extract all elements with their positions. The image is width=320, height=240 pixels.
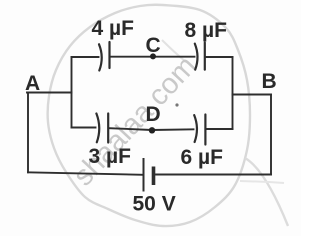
svg-text:4 µF: 4 µF (92, 17, 135, 40)
svg-text:3 µF: 3 µF (89, 145, 132, 168)
svg-text:6 µF: 6 µF (181, 146, 224, 169)
svg-text:8 µF: 8 µF (185, 19, 228, 42)
svg-text:50 V: 50 V (133, 193, 176, 216)
svg-text:D: D (146, 103, 161, 126)
svg-text:C: C (146, 34, 161, 57)
svg-text:A: A (25, 72, 40, 95)
svg-text:B: B (262, 70, 277, 93)
